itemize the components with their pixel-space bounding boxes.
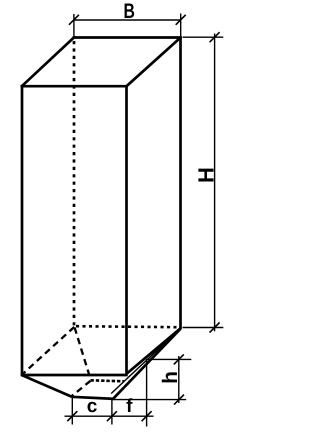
dimension c/f tick middle xyxy=(107,411,117,421)
dimension c tick left xyxy=(67,411,77,421)
wire: hidden back-left vertical edge (dotted) xyxy=(73,41,76,326)
dimension H tick bottom xyxy=(210,323,220,333)
dimension f tick right xyxy=(142,411,152,421)
wire: box top face left slant edge xyxy=(22,38,74,87)
dimension h line xyxy=(178,356,180,403)
dimension B line xyxy=(74,19,181,21)
svg-text:f: f xyxy=(126,396,133,417)
dimension H extension line top xyxy=(183,36,224,38)
dimension h tick top xyxy=(174,354,184,364)
wire: hopper left slant edge xyxy=(21,375,72,397)
dimension h extension line bottom xyxy=(113,399,186,401)
wire: box bottom right edge (upper slant) xyxy=(127,328,181,374)
svg-text:B: B xyxy=(124,0,135,23)
wire: box bottom front edge xyxy=(21,374,128,377)
wire: hidden box bottom left edge (dashed) xyxy=(22,327,74,375)
wire: box top face front edge xyxy=(21,85,128,88)
wire: front-right vertical edge xyxy=(125,85,128,375)
dimension B extension line right xyxy=(180,14,182,37)
dimension B tick right xyxy=(176,15,186,25)
wire: hidden hopper left rear crease (dashed) xyxy=(75,328,91,381)
dimension c extension line left xyxy=(71,398,73,425)
wire: box top face back edge xyxy=(73,36,182,39)
dimension h tick bottom xyxy=(174,395,184,405)
dimension H line xyxy=(214,34,216,332)
wire: front-left vertical edge xyxy=(21,85,24,375)
wire: hopper inner wall thin line (middle slant) xyxy=(111,329,180,394)
wire: hopper right silhouette edge (lower slant) xyxy=(113,329,181,399)
dimension c/f line xyxy=(65,415,154,417)
svg-text:h: h xyxy=(159,371,182,384)
wire: back-right vertical edge xyxy=(179,36,182,329)
wire: box top face right slant edge xyxy=(127,38,181,87)
dimension B extension line left xyxy=(73,14,75,37)
dimension f extension line right xyxy=(146,359,148,427)
svg-text:c: c xyxy=(87,396,98,417)
wire: hidden box bottom back edge (dotted) xyxy=(76,326,177,327)
wire: outlet bottom front edge xyxy=(71,397,114,399)
dimension c/f shared extension line middle xyxy=(111,400,113,425)
wire: hidden outlet rear edge (dotted) xyxy=(91,380,125,381)
svg-text:H: H xyxy=(193,167,218,183)
dimension B tick left xyxy=(69,15,79,25)
wire: hidden outlet left edge (dashed) xyxy=(72,381,91,396)
dimension h extension line top xyxy=(147,358,191,360)
dimension H tick top xyxy=(210,32,220,42)
dimension H extension line bottom xyxy=(183,327,224,329)
